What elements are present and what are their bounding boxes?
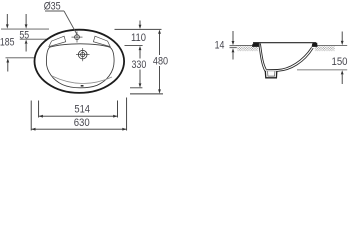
svg-text:150: 150 xyxy=(332,56,348,68)
svg-text:630: 630 xyxy=(74,117,90,129)
svg-text:330: 330 xyxy=(132,59,147,71)
svg-text:480: 480 xyxy=(153,55,168,67)
svg-text:55: 55 xyxy=(19,29,29,41)
svg-text:185: 185 xyxy=(0,37,15,49)
svg-text:14: 14 xyxy=(215,40,225,52)
svg-text:514: 514 xyxy=(74,104,90,116)
svg-text:110: 110 xyxy=(131,32,146,44)
svg-text:Ø35: Ø35 xyxy=(44,0,61,12)
